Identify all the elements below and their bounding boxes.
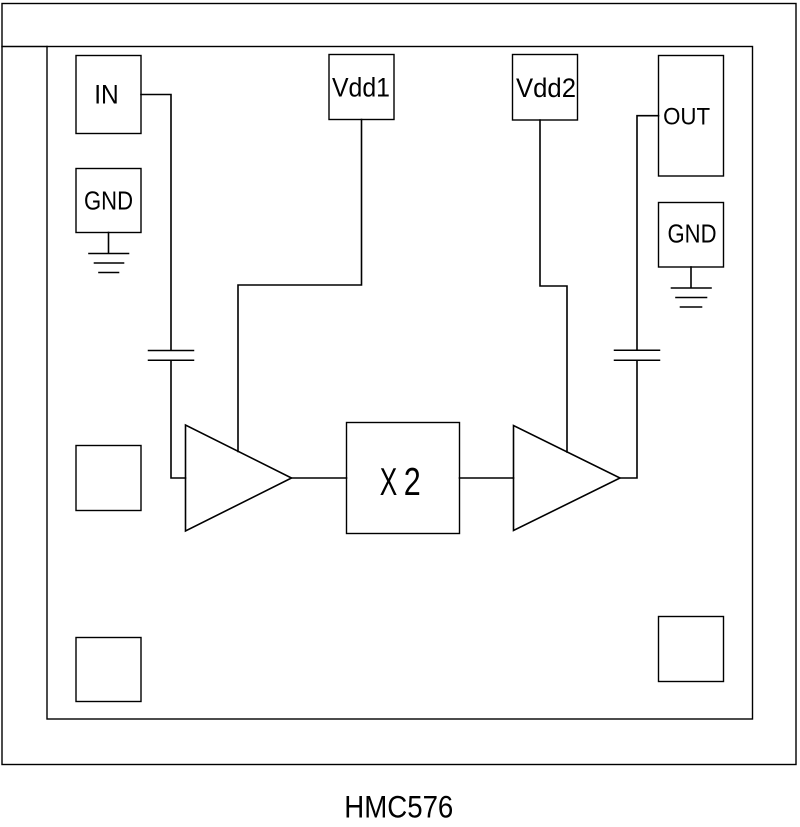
pad GND right bbox=[659, 203, 724, 268]
pad square bottom-left bbox=[76, 638, 141, 702]
svg-text:GND: GND bbox=[668, 221, 717, 249]
svg-text:Vdd2: Vdd2 bbox=[516, 73, 576, 103]
wire A2 to capacitor C2 bbox=[620, 361, 637, 478]
capacitor C2 plates bbox=[615, 349, 660, 351]
wire X2 to A2 bbox=[460, 477, 514, 479]
svg-text:X: X bbox=[380, 461, 398, 504]
pad Vdd2 bbox=[513, 55, 578, 121]
svg-text:OUT: OUT bbox=[663, 104, 710, 130]
pad square bottom-right bbox=[659, 617, 724, 682]
capacitor C1 plates bbox=[149, 350, 194, 352]
inner top edge extension to outer frame bbox=[2, 46, 47, 48]
ground symbol right: stem bbox=[690, 267, 692, 288]
svg-text:2: 2 bbox=[404, 461, 421, 504]
amplifier A1 bbox=[186, 425, 292, 531]
wire C1 to amplifier A1 input bbox=[171, 361, 186, 478]
svg-text:GND: GND bbox=[84, 188, 133, 216]
wire A1 to X2 bbox=[292, 477, 347, 479]
block X2 bbox=[347, 423, 460, 534]
pad OUT bbox=[659, 56, 724, 177]
ground symbol right: bars bbox=[672, 287, 712, 289]
wire Vdd1 to A1 bbox=[238, 120, 362, 452]
svg-text:IN: IN bbox=[94, 79, 119, 109]
svg-text:HMC576: HMC576 bbox=[344, 789, 453, 823]
wire Vdd2 to A2 bbox=[540, 120, 567, 452]
pad GND left bbox=[76, 169, 141, 233]
ground symbol left: bars bbox=[89, 253, 129, 255]
wire IN to capacitor C1 bbox=[141, 95, 171, 350]
pad Vdd1 bbox=[329, 55, 394, 120]
pad square middle-left bbox=[76, 446, 141, 511]
wire C2 to OUT bbox=[637, 116, 659, 350]
inner die frame bbox=[47, 47, 753, 720]
svg-text:Vdd1: Vdd1 bbox=[332, 73, 390, 103]
amplifier A2 bbox=[514, 426, 621, 531]
ground symbol left: stem bbox=[108, 233, 110, 254]
pad IN bbox=[76, 56, 141, 134]
